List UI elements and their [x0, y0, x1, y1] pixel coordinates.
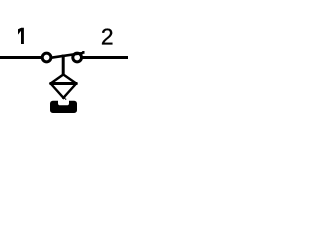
svg-text:2: 2 [101, 23, 114, 49]
